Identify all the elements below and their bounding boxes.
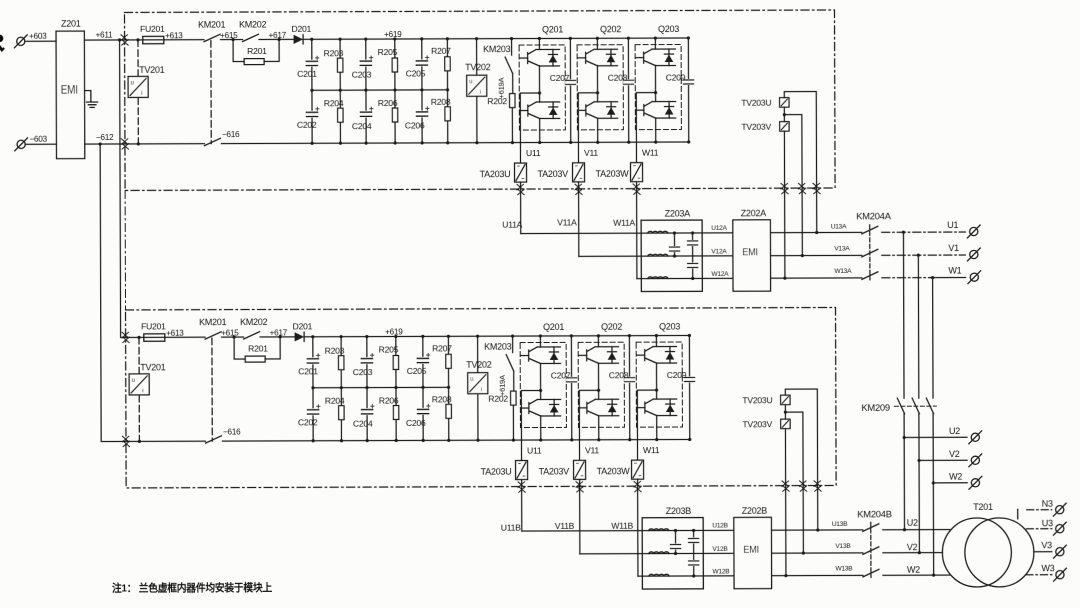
current transducer TA203U xyxy=(515,163,527,182)
contact KM204 pole W xyxy=(862,272,878,280)
svg-text:+615: +615 xyxy=(220,31,238,40)
svg-text:−603: −603 xyxy=(29,135,47,144)
wire TV203V bottom from W row xyxy=(783,131,786,278)
wire +603 xyxy=(25,40,56,42)
svg-text:C206: C206 xyxy=(405,120,425,130)
wire phase row U xyxy=(521,232,862,233)
svg-text:U1: U1 xyxy=(947,220,958,230)
transformer T201 xyxy=(942,502,1034,587)
X mark phase U xyxy=(517,184,524,194)
svg-text:+611: +611 xyxy=(96,30,114,39)
inductor U xyxy=(648,231,668,233)
wire TV203U sense from U row xyxy=(784,92,816,233)
svg-text:W11B: W11B xyxy=(611,521,633,531)
contact -616 xyxy=(204,138,220,145)
svg-text:U11: U11 xyxy=(526,148,541,158)
svg-text:C208: C208 xyxy=(608,73,628,83)
svg-text:U12B: U12B xyxy=(712,522,728,529)
resistor R203 / R204 column xyxy=(339,39,341,143)
CHANNEL-B-GROUP duplicate xyxy=(122,307,879,591)
svg-text:TA203U: TA203U xyxy=(480,169,511,179)
terminal +603 xyxy=(14,35,27,48)
wire phase row W xyxy=(637,277,862,280)
svg-text:−612: −612 xyxy=(96,133,114,142)
svg-text:Q201: Q201 xyxy=(542,24,563,34)
X mark -612 entry xyxy=(121,139,128,149)
terminal U1 xyxy=(967,225,980,238)
svg-text:Q202: Q202 xyxy=(600,24,621,34)
voltage transducer TV203V xyxy=(780,122,789,132)
svg-text:TV203U: TV203U xyxy=(741,98,771,108)
X mark TV203 taps xyxy=(781,183,788,193)
svg-text:Z203A: Z203A xyxy=(665,208,691,218)
X mark phase W xyxy=(633,184,640,194)
contact KM202 xyxy=(243,34,259,41)
svg-text:C202: C202 xyxy=(297,120,317,130)
KM204 mechanical link xyxy=(869,225,871,280)
wire phase drop W xyxy=(933,278,934,575)
svg-text:W2: W2 xyxy=(949,472,962,482)
wire W2 tap xyxy=(933,482,967,484)
wire N3 xyxy=(1027,509,1052,511)
resistor R205 / R206 column xyxy=(394,39,396,143)
svg-text:U13B: U13B xyxy=(832,521,848,528)
page artifact hole xyxy=(0,35,3,43)
capacitor column 1 in Z203 xyxy=(673,233,675,256)
svg-text:U11A: U11A xyxy=(502,220,522,230)
transducer TV201 xyxy=(136,38,139,41)
svg-text:FU201: FU201 xyxy=(140,24,165,34)
svg-text:KM204A: KM204A xyxy=(856,210,891,221)
resistor R207 / R208 column xyxy=(446,39,448,143)
dashed frame edge xyxy=(210,41,212,144)
svg-text:V13B: V13B xyxy=(835,543,851,550)
wire U1 output xyxy=(882,231,965,233)
svg-text:Z201: Z201 xyxy=(61,19,81,29)
current transducer TA203W xyxy=(631,163,643,182)
current transducer TA203V xyxy=(573,163,585,182)
svg-text:R206: R206 xyxy=(378,98,398,108)
svg-text:R204: R204 xyxy=(324,98,344,108)
CHANNEL-A-GROUP xyxy=(121,10,878,294)
svg-text:Z202B: Z202B xyxy=(742,506,768,516)
terminal V3 xyxy=(1053,545,1066,558)
contact KM204 pole U xyxy=(862,226,878,234)
wire phase drop U xyxy=(903,232,904,529)
X mark phase V xyxy=(575,184,582,194)
capacitor C205 / C206 column xyxy=(421,39,423,143)
snubber capacitor C207 xyxy=(569,38,571,142)
svg-text:V11A: V11A xyxy=(557,217,577,227)
svg-text:注1： 兰色虚框内器件均安装于模块上: 注1： 兰色虚框内器件均安装于模块上 xyxy=(112,581,273,595)
fuse FU201 xyxy=(143,36,164,43)
wire top DC bus xyxy=(303,38,688,39)
terminal N3 xyxy=(1053,503,1066,516)
svg-text:C207: C207 xyxy=(550,73,570,83)
svg-text:EMI: EMI xyxy=(61,83,78,97)
svg-text:+619: +619 xyxy=(384,30,402,39)
svg-text:TA203V: TA203V xyxy=(538,169,569,179)
svg-text:−616: −616 xyxy=(222,130,240,139)
terminal -603 xyxy=(15,138,28,151)
diode D201 xyxy=(294,35,304,44)
contactor KM209 xyxy=(861,398,936,414)
wire V3 xyxy=(1034,551,1052,553)
svg-text:C203: C203 xyxy=(352,70,372,80)
svg-text:U13A: U13A xyxy=(831,223,847,230)
resistor R202 discharge xyxy=(511,74,514,143)
svg-text:KM201: KM201 xyxy=(198,20,226,30)
svg-text:V11: V11 xyxy=(584,148,598,158)
svg-text:W12B: W12B xyxy=(712,568,730,575)
svg-text:C204: C204 xyxy=(352,121,372,131)
svg-text:V12B: V12B xyxy=(712,546,728,553)
svg-text:V13A: V13A xyxy=(834,245,850,252)
svg-text:W13A: W13A xyxy=(834,268,852,275)
terminal W1 xyxy=(968,271,981,284)
contact KM204 pole V xyxy=(862,249,878,257)
terminal W3 xyxy=(1054,568,1067,581)
wire -603 xyxy=(25,143,56,145)
svg-text:D201: D201 xyxy=(292,24,312,34)
svg-text:V11B: V11B xyxy=(555,521,575,531)
EMI filter Z202 box xyxy=(733,220,771,291)
svg-text:U11B: U11B xyxy=(501,523,521,533)
dash-dot module frame xyxy=(124,10,835,190)
transducer TV202 xyxy=(476,39,478,143)
resistor R201 bypass xyxy=(231,38,234,41)
wire +615 xyxy=(221,39,243,41)
svg-text:TA203W: TA203W xyxy=(596,169,630,179)
svg-text:W12A: W12A xyxy=(711,271,729,278)
terminal U2 xyxy=(969,431,982,444)
svg-text:R202: R202 xyxy=(487,96,507,106)
svg-text:KM202: KM202 xyxy=(239,19,267,29)
svg-text:V2: V2 xyxy=(949,449,960,459)
svg-text:R201: R201 xyxy=(247,46,267,56)
snubber capacitor C208 xyxy=(627,38,629,142)
wire feed to lower channel minus xyxy=(100,144,126,442)
capacitor C201 / C202 column xyxy=(311,39,313,143)
svg-text:KM204B: KM204B xyxy=(857,508,892,519)
svg-text:W2: W2 xyxy=(907,565,920,575)
wire +611 xyxy=(84,39,124,41)
wire U2 into transformer xyxy=(883,529,950,531)
wire W2 into transformer xyxy=(883,574,950,576)
IGBT module Q202 xyxy=(577,24,623,163)
capacitor column 2 in Z203 xyxy=(692,233,694,278)
wire V2 into transformer xyxy=(883,552,942,554)
svg-text:N3: N3 xyxy=(1042,499,1053,509)
terminal U3 xyxy=(1053,522,1066,535)
wire middle bus xyxy=(312,89,448,91)
svg-text:EMI: EMI xyxy=(742,246,758,258)
svg-text:TV202: TV202 xyxy=(465,62,491,72)
svg-text:+617: +617 xyxy=(269,31,287,40)
wire V2 tap xyxy=(919,459,967,461)
svg-text:W3: W3 xyxy=(1041,563,1054,573)
svg-text:R205: R205 xyxy=(378,47,398,57)
wire feed to lower channel plus xyxy=(120,40,127,338)
inductor W xyxy=(648,277,668,279)
svg-text:R207: R207 xyxy=(431,46,451,56)
wire W1 output xyxy=(882,277,930,279)
svg-text:U2: U2 xyxy=(949,426,960,436)
svg-text:W11: W11 xyxy=(642,148,659,158)
wire V1 output xyxy=(882,254,965,256)
capacitor C203 / C204 column xyxy=(365,39,367,143)
wire W3 xyxy=(1026,574,1052,576)
svg-text:Q203: Q203 xyxy=(658,24,679,34)
svg-text:U12A: U12A xyxy=(711,225,727,232)
wire U3 xyxy=(1026,528,1051,530)
svg-text:W13B: W13B xyxy=(835,565,853,572)
svg-text:+613: +613 xyxy=(165,31,183,40)
inductor V xyxy=(648,254,668,256)
svg-text:W1: W1 xyxy=(948,266,961,276)
input EMI block Z201 xyxy=(56,19,85,159)
svg-text:C209: C209 xyxy=(666,72,686,82)
terminal V2 xyxy=(969,454,982,467)
svg-text:R203: R203 xyxy=(324,48,344,58)
svg-text:U2: U2 xyxy=(907,518,918,528)
svg-text:KM209: KM209 xyxy=(861,402,890,413)
svg-text:Z202A: Z202A xyxy=(741,208,767,218)
IGBT module Q203 xyxy=(635,24,681,163)
svg-text:TV201: TV201 xyxy=(139,65,165,75)
contact KM201 xyxy=(204,34,220,41)
wire phase row V xyxy=(579,254,862,257)
voltage transducer TV203U xyxy=(780,98,789,108)
wire bottom DC bus / -616 xyxy=(125,142,689,144)
X mark +611 entry xyxy=(121,35,128,45)
svg-text:T201: T201 xyxy=(973,502,993,512)
svg-text:U3: U3 xyxy=(1042,518,1053,528)
snubber capacitor C209 xyxy=(687,38,689,142)
svg-text:W11A: W11A xyxy=(613,218,635,228)
wire +611/+613 bus xyxy=(125,39,204,41)
svg-text:Z203B: Z203B xyxy=(666,506,692,516)
frame left edge continuation xyxy=(124,190,126,309)
svg-text:+603: +603 xyxy=(29,32,47,41)
svg-text:V2: V2 xyxy=(907,542,918,552)
ground xyxy=(85,91,98,108)
terminal V1 xyxy=(967,248,980,261)
IGBT module Q201 xyxy=(519,24,565,163)
svg-text:C205: C205 xyxy=(406,68,426,78)
contact KM203 xyxy=(505,39,513,74)
wire -612 xyxy=(85,143,125,145)
svg-text:TV203V: TV203V xyxy=(741,122,771,132)
filter Z203 box xyxy=(641,220,702,292)
svg-text:V3: V3 xyxy=(1041,540,1052,550)
svg-text:V12A: V12A xyxy=(711,248,727,255)
wire +617 xyxy=(259,38,293,40)
wire TV203 mid tap from V row xyxy=(784,107,802,256)
svg-text:C201: C201 xyxy=(297,69,317,79)
wire phase drop V xyxy=(918,255,919,552)
svg-text:V1: V1 xyxy=(948,243,959,253)
svg-text:R208: R208 xyxy=(431,97,451,107)
terminal W2 xyxy=(969,476,982,489)
svg-text:KM203: KM203 xyxy=(483,44,511,54)
wire U2 tap xyxy=(904,436,967,438)
